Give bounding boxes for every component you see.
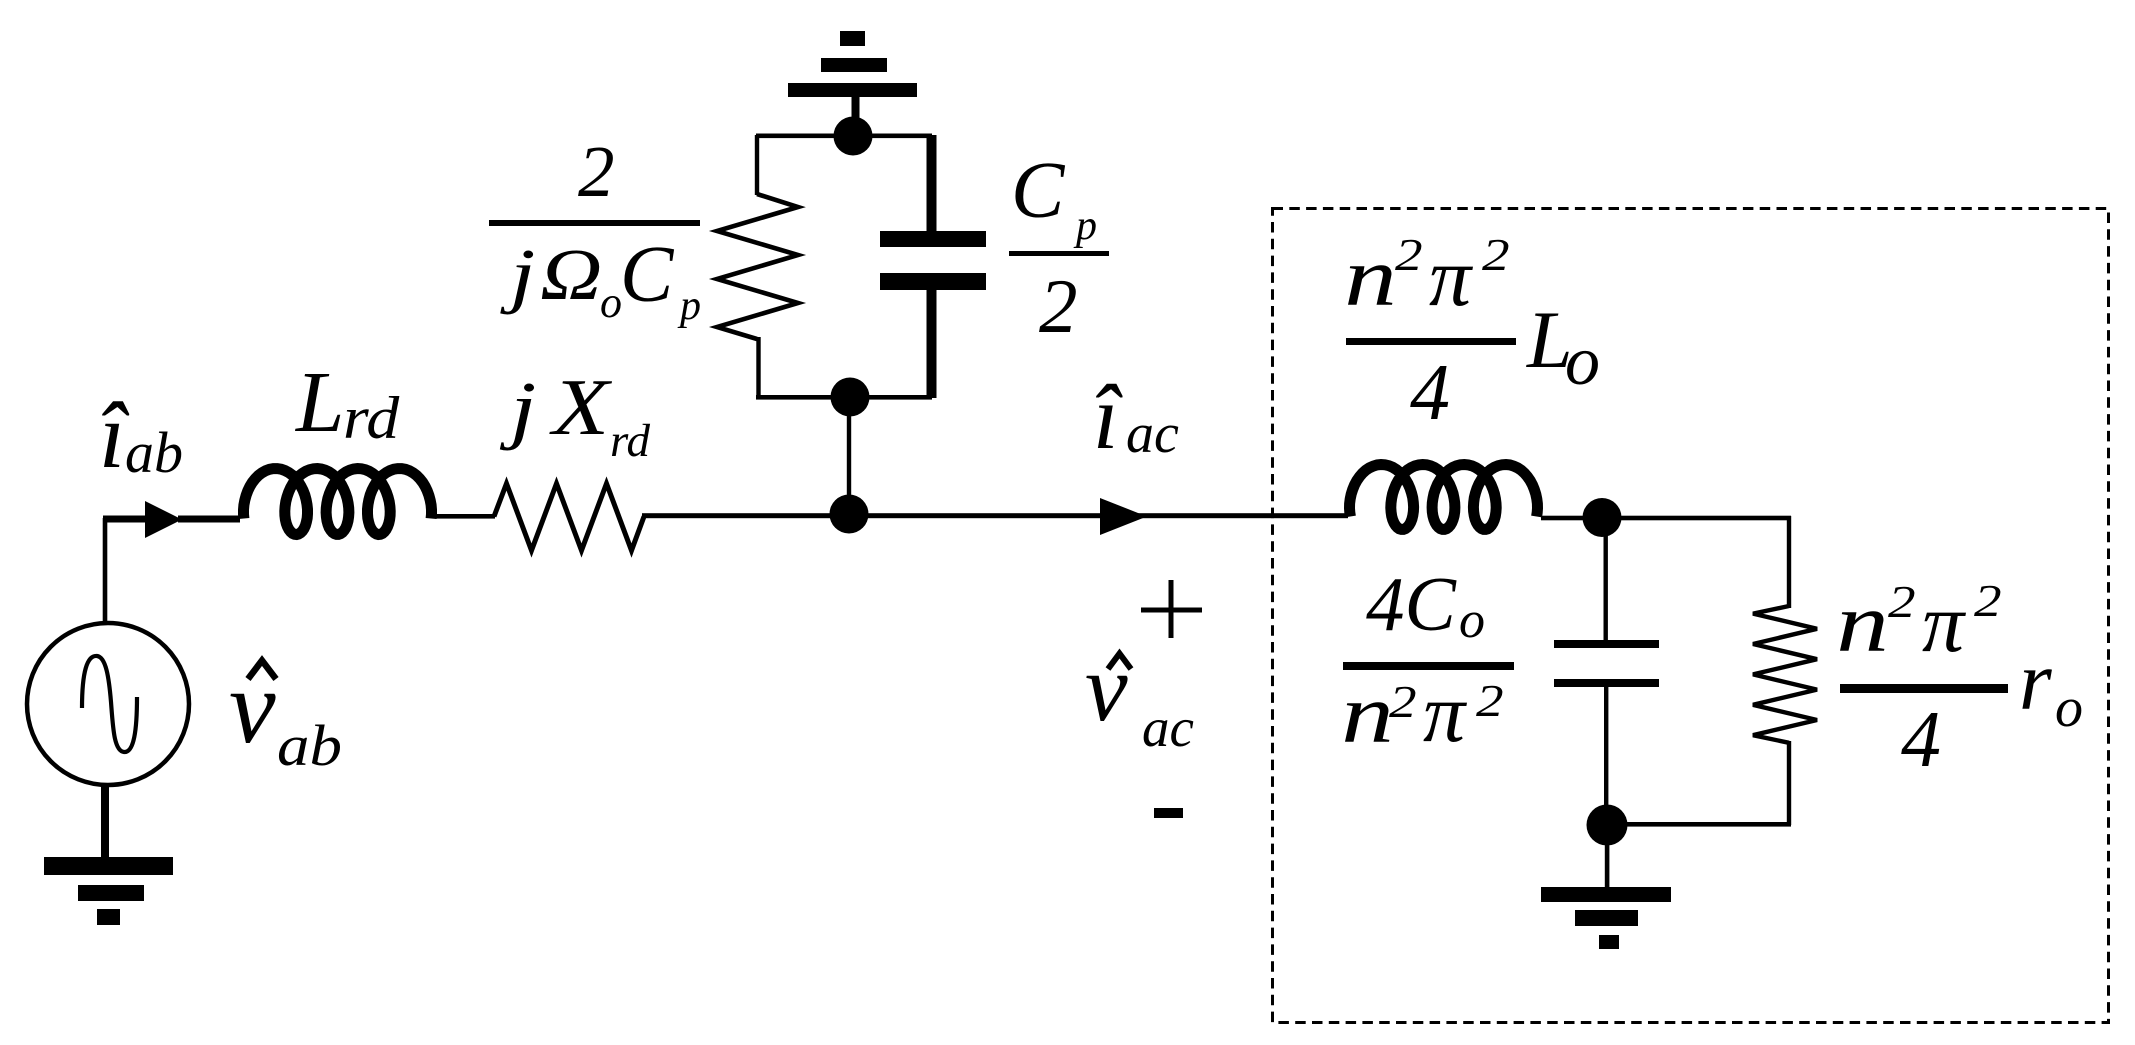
- dashed box (transformed load network): [1273, 209, 2109, 1023]
- node dot (bottom of parallel RC): [831, 378, 870, 417]
- label n^2 pi^2 / 4 r_o (resistor value): [1836, 575, 2083, 784]
- capacitor 4Co lead bottom: [1604, 687, 1608, 826]
- svg-text:o: o: [1565, 323, 1600, 400]
- svg-text:Ω: Ω: [540, 235, 602, 315]
- inductor L_rd: [244, 469, 432, 535]
- label n^2 pi^2 / 4 L_o (inductor value): [1344, 229, 1600, 437]
- wire bottom bar of parallel RC: [756, 395, 932, 400]
- inductor n^2pi^2/4 Lo: [1350, 465, 1538, 530]
- svg-text:2: 2: [1389, 676, 1417, 727]
- svg-text:ac: ac: [1126, 403, 1179, 465]
- svg-text:2: 2: [1888, 576, 1916, 627]
- svg-text:ac: ac: [1142, 697, 1194, 758]
- svg-text:2: 2: [1395, 229, 1423, 280]
- svg-text:r: r: [2019, 635, 2052, 728]
- svg-text:v: v: [1085, 634, 1128, 741]
- svg-text:p: p: [1073, 203, 1097, 249]
- node dot (bottom right): [1587, 805, 1628, 846]
- svg-text:X: X: [549, 363, 612, 452]
- wire L_rd to jX_rd: [435, 514, 495, 519]
- plus sign (v_ac polarity): [1141, 580, 1202, 638]
- wire junction up to parallel RC: [847, 400, 851, 516]
- svg-text:o: o: [1459, 592, 1485, 649]
- svg-text:C: C: [620, 231, 675, 319]
- junction dot (node b): [830, 495, 869, 534]
- wire source to arrow (node a): [103, 516, 148, 625]
- svg-text:ab: ab: [125, 420, 183, 485]
- svg-text:C: C: [1011, 147, 1066, 235]
- wire bottom node to resistor: [1607, 822, 1791, 827]
- node dot (top of parallel RC): [834, 117, 873, 156]
- minus sign (v_ac polarity): [1154, 808, 1183, 818]
- svg-text:π: π: [1429, 231, 1474, 324]
- svg-text:4: 4: [1901, 696, 1941, 784]
- arrow i_ac: [1100, 498, 1147, 535]
- svg-text:p: p: [677, 283, 701, 329]
- label v_ac: [1085, 634, 1194, 758]
- svg-text:2: 2: [1039, 263, 1078, 349]
- label v_ab: [229, 648, 342, 778]
- label 2/jOmega_o C_p (fraction): [489, 131, 701, 329]
- wire jX_rd to L_o (node b): [642, 513, 1348, 518]
- ac source V (v_ab): [27, 623, 189, 785]
- svg-text:ab: ab: [277, 714, 342, 778]
- svg-text:rd: rd: [343, 385, 400, 452]
- svg-text:2: 2: [1974, 575, 2002, 626]
- svg-text:n: n: [1344, 230, 1397, 324]
- svg-text:2: 2: [1482, 229, 1510, 280]
- wire Lo to resistor corner: [1541, 516, 1791, 521]
- svg-text:2: 2: [578, 131, 615, 212]
- ground (below source): [44, 783, 173, 925]
- svg-text:4: 4: [1410, 349, 1450, 437]
- label C_p/2 (fraction): [1009, 147, 1109, 349]
- svg-text:π: π: [1922, 577, 1967, 670]
- svg-text:o: o: [600, 278, 622, 327]
- capacitor 4Co lead top: [1604, 517, 1608, 643]
- wire top bar of parallel RC: [756, 134, 932, 139]
- arrow i_ab: [145, 501, 182, 538]
- svg-text:rd: rd: [610, 415, 651, 467]
- capacitor 4Co plates: [1554, 640, 1659, 687]
- resistor n^2pi^2/4 ro: [1753, 516, 1817, 825]
- label jX_rd: [499, 363, 651, 467]
- resistor jX_rd: [494, 484, 644, 551]
- svg-text:L: L: [294, 353, 344, 450]
- svg-text:π: π: [1423, 667, 1468, 760]
- svg-text:o: o: [2055, 677, 2083, 739]
- label i_ab: [99, 384, 183, 488]
- svg-text:2: 2: [1476, 675, 1504, 726]
- resistor 2/jOmegaCp (left branch): [717, 135, 798, 398]
- ground (top, inverted): [788, 31, 917, 121]
- label i_ac: [1093, 366, 1179, 468]
- wire arrow to L_rd: [178, 516, 240, 523]
- svg-text:î: î: [1093, 366, 1123, 468]
- svg-text:4C: 4C: [1366, 561, 1458, 647]
- ground (bottom right): [1541, 843, 1671, 949]
- svg-text:n: n: [1836, 576, 1889, 670]
- capacitor Cp/2 (right branch): [880, 135, 986, 398]
- label L_rd: [294, 353, 400, 451]
- node dot (top right): [1583, 498, 1622, 537]
- label 4C_o / n^2 pi^2 (capacitor value): [1341, 561, 1514, 761]
- svg-text:n: n: [1341, 667, 1394, 761]
